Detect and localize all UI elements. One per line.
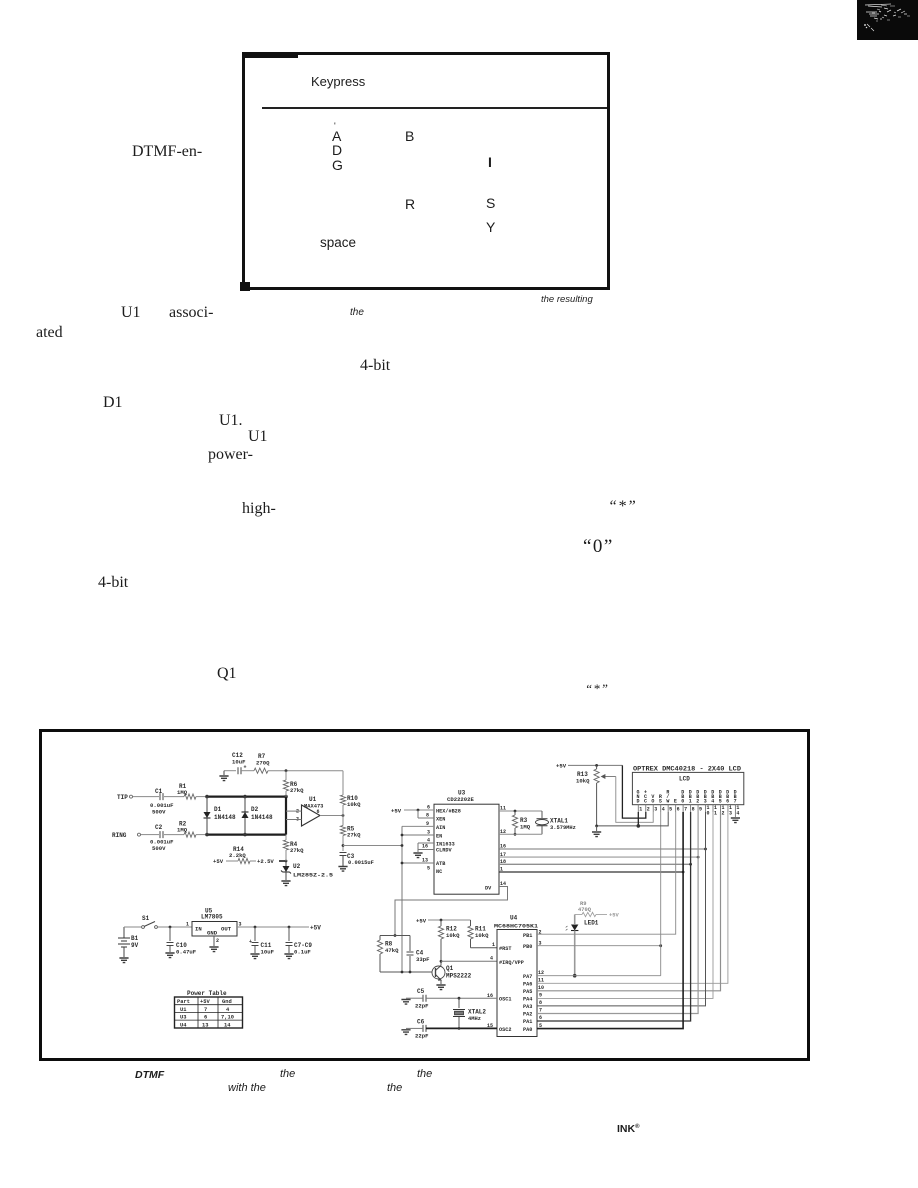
svg-text:7: 7 bbox=[539, 1008, 542, 1014]
svg-text:4: 4 bbox=[662, 807, 665, 813]
svg-text:PA7: PA7 bbox=[523, 974, 532, 980]
wire U3 pins 4,16 to ground bbox=[418, 843, 434, 852]
wire R11 to RST bbox=[471, 947, 498, 949]
ground for C7-C9 bbox=[284, 954, 293, 959]
svg-text:PB1: PB1 bbox=[523, 933, 532, 939]
svg-text:DB2: DB2 bbox=[696, 790, 699, 805]
svg-text:B1: B1 bbox=[131, 935, 139, 942]
svg-text:PA0: PA0 bbox=[523, 1027, 532, 1033]
wire PA6 bbox=[537, 812, 728, 983]
svg-text:7,10: 7,10 bbox=[221, 1015, 234, 1021]
svg-text:OUT: OUT bbox=[221, 926, 232, 933]
ground for Q1 bbox=[436, 985, 445, 990]
svg-text:10kQ: 10kQ bbox=[576, 778, 590, 785]
svg-text:10kQ: 10kQ bbox=[446, 932, 460, 939]
top-right black photo corner fragment bbox=[857, 0, 918, 40]
svg-text:+5V: +5V bbox=[609, 913, 619, 919]
svg-text:1MQ: 1MQ bbox=[177, 827, 188, 834]
svg-text:47kQ: 47kQ bbox=[385, 947, 399, 954]
svg-text:1MQ: 1MQ bbox=[177, 789, 188, 796]
resistor R4 bbox=[283, 835, 304, 861]
wire +5V to U3 pins 6,8 bbox=[391, 808, 434, 819]
capacitor C3 bbox=[340, 853, 374, 867]
svg-text:S1: S1 bbox=[142, 915, 150, 922]
svg-text:#IRQ/VPP: #IRQ/VPP bbox=[499, 960, 524, 966]
wire PB1 to LCD E bbox=[537, 812, 676, 934]
svg-text:+CC: +CC bbox=[644, 790, 647, 805]
svg-text:C6: C6 bbox=[417, 1019, 425, 1026]
svg-text:DB6: DB6 bbox=[726, 790, 729, 805]
bottom-left corner blob bbox=[240, 282, 250, 291]
svg-text:C1: C1 bbox=[155, 788, 163, 795]
thicker scanned segment of top border bbox=[242, 52, 298, 58]
svg-text:2: 2 bbox=[721, 811, 724, 817]
crystal XTAL1 3.579MHz bbox=[536, 811, 576, 834]
capacitor C12 bbox=[232, 752, 254, 774]
svg-text:PA4: PA4 bbox=[523, 997, 532, 1003]
svg-text:3: 3 bbox=[729, 811, 732, 817]
wire ground rail to LCD pins 1,5 bbox=[595, 812, 668, 828]
svg-text:3.579MHz: 3.579MHz bbox=[550, 825, 576, 831]
diode D1 1N4148 bbox=[204, 797, 237, 835]
svg-text:PA5: PA5 bbox=[523, 989, 532, 995]
resistor R2 bbox=[177, 821, 196, 838]
resistor R6 bbox=[283, 771, 304, 797]
resistor R11 10k bbox=[468, 920, 489, 948]
svg-text:Part: Part bbox=[177, 999, 190, 1005]
svg-text:7: 7 bbox=[204, 1007, 207, 1013]
svg-text:2: 2 bbox=[647, 807, 650, 813]
svg-text:LED1: LED1 bbox=[584, 920, 599, 927]
svg-text:RING: RING bbox=[112, 832, 127, 839]
svg-text:HEX/#B28: HEX/#B28 bbox=[436, 809, 461, 815]
svg-text:4: 4 bbox=[736, 811, 739, 817]
capacitor C11 bbox=[249, 927, 275, 956]
svg-text:+5V: +5V bbox=[200, 999, 210, 1005]
capacitor C7-C9 bbox=[286, 927, 313, 956]
svg-text:Gnd: Gnd bbox=[222, 999, 232, 1005]
svg-text:0.1uF: 0.1uF bbox=[294, 949, 311, 956]
svg-text:10: 10 bbox=[538, 985, 544, 991]
svg-text:7: 7 bbox=[684, 807, 687, 813]
node RING input bbox=[112, 832, 156, 839]
svg-text:270Q: 270Q bbox=[256, 760, 270, 767]
ground for U2 bbox=[281, 881, 290, 886]
svg-text:1: 1 bbox=[639, 807, 642, 813]
wire PB0 to LCD RS bbox=[537, 944, 662, 947]
switch S1 bbox=[124, 915, 192, 928]
svg-text:0: 0 bbox=[707, 811, 710, 817]
wire Q1 base net bbox=[380, 971, 432, 974]
wire PA4 bbox=[537, 812, 713, 998]
svg-text:14: 14 bbox=[224, 1022, 231, 1028]
resistor R3 bbox=[512, 811, 530, 836]
svg-text:Q1: Q1 bbox=[446, 965, 454, 972]
svg-text:27kQ: 27kQ bbox=[347, 832, 361, 839]
svg-text:PA1: PA1 bbox=[523, 1019, 532, 1025]
svg-text:6: 6 bbox=[204, 1015, 207, 1021]
resistor R14 bbox=[213, 846, 287, 865]
resistor R1 bbox=[177, 783, 196, 799]
wire XOUT bbox=[499, 810, 542, 813]
wire op-amp output bbox=[320, 814, 344, 817]
svg-text:TIP: TIP bbox=[117, 794, 128, 801]
svg-text:XTAL1: XTAL1 bbox=[550, 818, 568, 825]
wire R13 wiper to LCD V0 bbox=[616, 777, 653, 823]
crystal XTAL2 4MHz bbox=[453, 998, 486, 1028]
svg-text:PA2: PA2 bbox=[523, 1012, 532, 1018]
svg-text:1: 1 bbox=[492, 942, 495, 948]
svg-text:U4: U4 bbox=[180, 1022, 187, 1028]
ground for C3 bbox=[338, 867, 347, 872]
wire D8 data line bbox=[499, 848, 707, 851]
svg-text:MAX473: MAX473 bbox=[304, 804, 323, 810]
svg-text:1: 1 bbox=[714, 811, 717, 817]
svg-text:EN: EN bbox=[436, 834, 442, 840]
ground for C10 bbox=[165, 953, 174, 958]
wire +5V to LCD bbox=[556, 763, 622, 770]
potentiometer R13 10k bbox=[576, 765, 616, 826]
ground for C6 bbox=[401, 1028, 410, 1034]
capacitor C4 33pF bbox=[407, 936, 431, 973]
svg-text:D2: D2 bbox=[251, 806, 259, 813]
svg-text:DB1: DB1 bbox=[689, 790, 692, 805]
svg-text:4MHz: 4MHz bbox=[468, 1016, 481, 1022]
ground for C11 bbox=[250, 954, 259, 959]
wire TIP to node A bbox=[196, 795, 288, 799]
header rule bbox=[262, 107, 607, 109]
svg-text:#RST: #RST bbox=[499, 946, 511, 952]
svg-text:OSC2: OSC2 bbox=[499, 1027, 511, 1033]
wire AIN net vertical bbox=[401, 826, 434, 972]
svg-text:+5V: +5V bbox=[416, 918, 427, 925]
wire OSC1 bbox=[426, 997, 497, 1000]
svg-text:2: 2 bbox=[216, 938, 219, 944]
resistor R8 47k bbox=[377, 936, 399, 973]
ground for C5 bbox=[401, 998, 410, 1004]
svg-text:PA3: PA3 bbox=[523, 1004, 532, 1010]
svg-text:+5V: +5V bbox=[310, 925, 321, 932]
IC U3 CD22202E bbox=[422, 790, 506, 895]
svg-text:DB0: DB0 bbox=[681, 790, 684, 805]
resistor R12 10k bbox=[438, 920, 460, 963]
svg-text:6: 6 bbox=[539, 1015, 542, 1021]
svg-text:10kQ: 10kQ bbox=[475, 932, 489, 939]
svg-text:9V: 9V bbox=[131, 942, 139, 949]
regulator U5 LM7805 bbox=[186, 908, 242, 947]
svg-text:27kQ: 27kQ bbox=[290, 787, 304, 794]
svg-text:DB5: DB5 bbox=[719, 790, 722, 805]
svg-text:3: 3 bbox=[654, 807, 657, 813]
svg-text:D1: D1 bbox=[214, 806, 222, 813]
svg-text:ATB: ATB bbox=[436, 861, 445, 867]
node TIP input bbox=[117, 794, 156, 801]
svg-text:5: 5 bbox=[427, 866, 430, 872]
svg-text:10kQ: 10kQ bbox=[347, 801, 361, 808]
svg-text:11: 11 bbox=[538, 978, 544, 984]
ground for U5 bbox=[209, 947, 218, 952]
svg-text:+5V: +5V bbox=[391, 808, 402, 815]
svg-text:C3: C3 bbox=[347, 853, 355, 860]
resistor R7 bbox=[254, 753, 270, 773]
capacitor C5 22pF bbox=[408, 988, 429, 1010]
svg-text:+: + bbox=[244, 765, 247, 771]
ground for LCD DB7 pin14 bbox=[731, 812, 740, 823]
svg-text:6: 6 bbox=[677, 807, 680, 813]
LCD module OPTREX DMC40218 bbox=[632, 766, 743, 817]
svg-text:470Q: 470Q bbox=[578, 907, 592, 913]
svg-text:NC: NC bbox=[436, 869, 442, 875]
svg-text:XTAL2: XTAL2 bbox=[468, 1009, 486, 1016]
svg-text:MC68HC705K1: MC68HC705K1 bbox=[494, 924, 538, 930]
LED LED1 bbox=[566, 915, 599, 978]
ground for B1 bbox=[119, 958, 128, 963]
svg-text:PA6: PA6 bbox=[523, 982, 532, 988]
svg-text:XEN: XEN bbox=[436, 817, 445, 823]
ground for U3 pin16 bbox=[413, 853, 422, 858]
svg-text:1MQ: 1MQ bbox=[520, 824, 531, 831]
svg-text:27kQ: 27kQ bbox=[290, 847, 304, 854]
svg-text:U2: U2 bbox=[293, 863, 301, 870]
svg-text:10uF: 10uF bbox=[261, 949, 275, 956]
wire PA1 bbox=[537, 812, 691, 1021]
svg-text:OPTREX DMC40218 - 2X40 LCD: OPTREX DMC40218 - 2X40 LCD bbox=[633, 766, 741, 773]
svg-text:0.0015uF: 0.0015uF bbox=[348, 860, 374, 866]
resistor R9 470 bbox=[575, 901, 620, 919]
node R8-C4 top junction bbox=[380, 934, 410, 937]
wire PA2 bbox=[537, 812, 698, 1014]
svg-text:13: 13 bbox=[202, 1022, 208, 1028]
svg-text:DB7: DB7 bbox=[734, 790, 737, 805]
svg-text:CLRDV: CLRDV bbox=[436, 848, 452, 854]
wire DV to R8 node bbox=[395, 887, 508, 936]
svg-text:8: 8 bbox=[692, 807, 695, 813]
wire XIN bbox=[499, 833, 542, 835]
svg-text:LCD: LCD bbox=[679, 776, 690, 783]
svg-text:9: 9 bbox=[539, 993, 542, 999]
svg-text:LM7805: LM7805 bbox=[201, 914, 223, 921]
svg-text:16: 16 bbox=[422, 844, 428, 850]
svg-text:1N4148: 1N4148 bbox=[251, 814, 273, 821]
schematic SVG goes here bbox=[38, 728, 811, 1061]
svg-text:RS: RS bbox=[659, 794, 662, 805]
svg-text:2.2kQ: 2.2kQ bbox=[229, 852, 246, 859]
svg-text:+5V: +5V bbox=[213, 858, 224, 865]
capacitor C1 bbox=[150, 788, 184, 816]
svg-text:C5: C5 bbox=[417, 988, 425, 995]
svg-text:CD22202E: CD22202E bbox=[447, 796, 474, 803]
svg-text:DV: DV bbox=[485, 886, 492, 892]
wire PA7 bbox=[537, 975, 661, 977]
svg-text:C2: C2 bbox=[155, 824, 163, 831]
svg-text:9: 9 bbox=[699, 807, 702, 813]
svg-text:0.47uF: 0.47uF bbox=[176, 949, 197, 956]
op-amp U1 MAX473 bbox=[286, 796, 323, 826]
svg-text:1: 1 bbox=[186, 922, 189, 928]
svg-text:GND: GND bbox=[637, 790, 640, 805]
capacitor C6 22pF bbox=[408, 1019, 429, 1040]
svg-text:DB4: DB4 bbox=[711, 790, 714, 805]
svg-text:Power Table: Power Table bbox=[187, 990, 227, 997]
wire D2 data line bbox=[499, 863, 692, 866]
svg-text:1N4148: 1N4148 bbox=[214, 814, 236, 821]
capacitor C2 bbox=[150, 824, 184, 852]
ground for C12 bbox=[219, 771, 236, 781]
svg-text:IN: IN bbox=[195, 926, 202, 933]
wire PA0 bbox=[537, 812, 683, 1029]
svg-text:6: 6 bbox=[317, 809, 320, 815]
svg-text:MPS2222: MPS2222 bbox=[446, 973, 472, 980]
svg-text:5: 5 bbox=[669, 807, 672, 813]
svg-text:U4: U4 bbox=[510, 915, 518, 922]
battery B1 9V bbox=[118, 927, 139, 957]
svg-text:VO: VO bbox=[651, 794, 654, 805]
svg-text:E: E bbox=[674, 799, 677, 805]
wire RS column bbox=[660, 812, 662, 976]
svg-text:OSC1: OSC1 bbox=[499, 997, 511, 1003]
svg-text:U1: U1 bbox=[309, 796, 317, 803]
svg-text:22pF: 22pF bbox=[415, 1003, 429, 1010]
resistor R5 bbox=[340, 816, 361, 852]
wire D1 data line bbox=[499, 871, 684, 874]
resistor R10 bbox=[340, 771, 361, 816]
svg-text:U3: U3 bbox=[180, 1015, 186, 1021]
svg-text:4: 4 bbox=[490, 956, 493, 962]
voltage reference U2 LM285Z-2.5 bbox=[281, 861, 333, 880]
wire IRQ net bbox=[441, 960, 497, 962]
svg-text:500V: 500V bbox=[152, 809, 166, 816]
wire D4 data line bbox=[499, 856, 699, 859]
svg-text:500V: 500V bbox=[152, 845, 166, 852]
svg-text:IN1633: IN1633 bbox=[436, 841, 455, 847]
wire OSC2 bbox=[426, 1027, 497, 1030]
svg-text:33pF: 33pF bbox=[416, 956, 430, 963]
wire +5V rail for R11 R12 bbox=[416, 918, 471, 925]
svg-text:LM285Z-2.5: LM285Z-2.5 bbox=[293, 873, 333, 879]
svg-text:+5V: +5V bbox=[556, 763, 567, 770]
wire +5V output bbox=[237, 925, 321, 932]
svg-text:PB0: PB0 bbox=[523, 944, 532, 950]
IC U4 MC68HC705K1 bbox=[487, 915, 544, 1037]
svg-text:DB3: DB3 bbox=[704, 790, 707, 805]
capacitor C10 bbox=[167, 927, 197, 956]
svg-text:12: 12 bbox=[538, 970, 544, 976]
svg-text:+: + bbox=[249, 939, 252, 945]
wire top bias rail bbox=[268, 769, 343, 772]
svg-text:R/W: R/W bbox=[666, 790, 669, 805]
wire input network right edge bbox=[285, 797, 287, 835]
wire RING to node B bbox=[196, 833, 286, 837]
wire PA3 bbox=[537, 812, 706, 1006]
svg-text:GND: GND bbox=[207, 930, 218, 937]
power table bbox=[175, 990, 243, 1028]
svg-text:AIN: AIN bbox=[436, 825, 445, 831]
svg-text:8: 8 bbox=[539, 1000, 542, 1006]
svg-text:22pF: 22pF bbox=[415, 1033, 429, 1040]
ground for R13 bbox=[592, 826, 601, 837]
wire VCC nest to LCD pin2 bbox=[622, 765, 645, 818]
diode D2 1N4148 bbox=[242, 797, 274, 835]
svg-text:U1: U1 bbox=[180, 1007, 186, 1013]
transistor Q1 MPS2222 bbox=[432, 961, 472, 984]
wire to AIN bbox=[343, 826, 402, 845]
wire PA5 bbox=[537, 812, 721, 991]
svg-text:+2.5V: +2.5V bbox=[257, 858, 274, 865]
